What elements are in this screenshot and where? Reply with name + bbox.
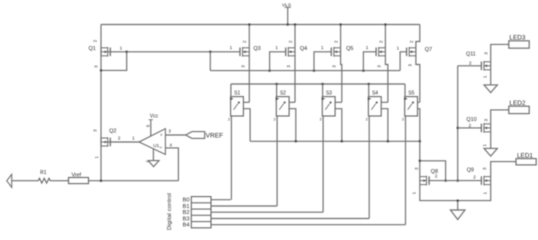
wire Q8 gate to Q9 gate xyxy=(428,180,481,182)
wire S5 output hook xyxy=(418,109,420,142)
wire gate under-rail R1 xyxy=(210,69,400,72)
wire S2 input riser xyxy=(276,84,278,97)
net tag LED2 xyxy=(505,100,530,113)
wire drain riser x=249.3 xyxy=(248,23,251,47)
wire R1 to Vref xyxy=(53,180,69,182)
ground (Q11) xyxy=(484,85,497,93)
svg-text:2: 2 xyxy=(274,118,276,122)
transistor Q2 xyxy=(92,129,121,159)
switch S2 xyxy=(274,90,289,121)
svg-text:Q2: Q2 xyxy=(109,129,116,135)
transistor Q3 xyxy=(230,40,261,68)
svg-text:2: 2 xyxy=(334,40,339,43)
transistor Q8 xyxy=(412,167,438,194)
svg-text:2: 2 xyxy=(228,118,230,122)
power flag VLS xyxy=(282,2,291,25)
label B3 xyxy=(183,217,190,223)
svg-text:S4: S4 xyxy=(372,90,378,96)
wire Q7 drain drop xyxy=(416,56,420,102)
wire S1 control drop xyxy=(230,116,232,200)
wire Q11 source xyxy=(490,70,492,85)
wire Q9 drain to LED1 xyxy=(491,162,512,177)
wire S4 upper pin xyxy=(381,101,388,103)
wire gate riser Q4 xyxy=(270,52,286,71)
wire gate riser Q5 xyxy=(314,52,331,71)
transistor Q11 xyxy=(466,51,491,78)
transistor Q10 xyxy=(466,117,490,147)
svg-text:S5: S5 xyxy=(408,90,414,96)
svg-text:5: 5 xyxy=(145,124,150,127)
ground (op-amp) xyxy=(148,161,159,167)
svg-text:2: 2 xyxy=(118,135,121,140)
svg-text:2: 2 xyxy=(366,118,368,122)
net tag VREF xyxy=(186,132,224,140)
wire Q10 drain to LED2 xyxy=(491,110,505,124)
wire S2 control drop xyxy=(276,116,278,206)
svg-text:+: + xyxy=(160,133,163,138)
op-amp output pin 3 to VREF xyxy=(165,129,185,135)
label B1 xyxy=(183,204,190,210)
svg-text:S3: S3 xyxy=(326,90,332,96)
wire S5 input riser xyxy=(404,84,406,97)
svg-text:B0: B0 xyxy=(183,198,190,204)
svg-text:1: 1 xyxy=(482,75,487,78)
svg-text:3: 3 xyxy=(407,63,412,66)
transistor Q6 xyxy=(366,40,386,68)
transistor Q5 xyxy=(321,40,354,68)
wire S4 output hook xyxy=(381,109,388,142)
wire S2 upper pin xyxy=(289,101,295,103)
svg-text:3: 3 xyxy=(286,65,291,68)
wire S3 upper pin xyxy=(335,101,342,103)
wire Q2 gate to op-amp xyxy=(108,141,139,143)
wire B2 control line xyxy=(211,211,323,213)
wire gate riser Q6 xyxy=(363,52,376,71)
svg-text:4: 4 xyxy=(169,143,172,148)
svg-text:2: 2 xyxy=(402,118,404,122)
wire drain drop x=249.3 xyxy=(248,56,250,102)
wire gate riser Q7 xyxy=(400,52,407,71)
ground (Q10) xyxy=(484,148,497,156)
svg-text:2: 2 xyxy=(288,40,293,43)
wire Q1 gate to rail xyxy=(108,51,127,53)
svg-text:B3: B3 xyxy=(183,217,190,223)
wire output rail xyxy=(250,140,421,143)
svg-text:1: 1 xyxy=(132,135,135,140)
svg-text:Q5: Q5 xyxy=(346,46,353,52)
svg-text:Q3: Q3 xyxy=(253,46,260,52)
wire drain riser x=385.4 xyxy=(384,23,387,47)
svg-text:VREF: VREF xyxy=(206,133,224,140)
svg-text:B1: B1 xyxy=(183,204,190,210)
label B4 xyxy=(183,223,190,229)
svg-text:B2: B2 xyxy=(183,210,190,216)
label B0 xyxy=(183,198,190,204)
wire S5 control drop xyxy=(405,116,407,225)
resistor R1 xyxy=(36,170,53,183)
op-amp U1 xyxy=(132,129,165,155)
wire B4 control line xyxy=(211,224,406,226)
svg-text:LED2: LED2 xyxy=(509,100,525,107)
svg-text:1: 1 xyxy=(412,191,417,194)
svg-text:LED1: LED1 xyxy=(517,152,533,159)
svg-text:3: 3 xyxy=(483,52,488,55)
wire S3 control drop xyxy=(322,116,324,212)
wire gate rail segment A xyxy=(127,51,240,54)
wire B1 control line xyxy=(211,205,277,207)
wire left vertical (rail to Q1,Q2,Vref node) xyxy=(100,25,102,181)
net tag LED1 xyxy=(512,152,536,165)
transistor Q4 xyxy=(275,40,307,68)
op-amp ground pin xyxy=(146,149,154,163)
wire ground stub xyxy=(456,199,459,210)
wire Q11 gate xyxy=(458,65,482,67)
svg-text:3: 3 xyxy=(168,129,171,134)
svg-text:1: 1 xyxy=(275,45,278,50)
component Vref xyxy=(69,173,89,184)
wire gate control vertical xyxy=(456,66,459,182)
wire drain drop x=385.4 xyxy=(385,56,388,102)
wire S1 input riser xyxy=(230,84,232,97)
svg-text:U1: U1 xyxy=(153,143,159,148)
svg-text:3: 3 xyxy=(93,65,98,68)
wire rail to Q8 drain xyxy=(419,141,421,176)
wire S1 output hook xyxy=(243,109,250,142)
wire port to R1 xyxy=(12,180,36,182)
svg-text:Vref: Vref xyxy=(71,173,81,179)
svg-text:1: 1 xyxy=(321,45,324,50)
svg-text:R1: R1 xyxy=(40,170,47,176)
svg-text:Q11: Q11 xyxy=(466,51,476,57)
ground (Q8 Q9 common) xyxy=(450,210,465,220)
wire drain drop x=295.0 xyxy=(294,56,296,102)
wire S5 upper pin xyxy=(418,101,420,103)
wire S2 output hook xyxy=(289,109,296,142)
switch S1 xyxy=(228,90,243,121)
svg-text:1: 1 xyxy=(397,45,400,50)
wire drain drop x=340.6 xyxy=(341,56,342,102)
wire top supply rail xyxy=(101,24,420,26)
wire S3 input riser xyxy=(322,84,324,97)
svg-text:2: 2 xyxy=(469,123,472,128)
svg-text:3: 3 xyxy=(240,65,245,68)
svg-text:1: 1 xyxy=(94,156,99,159)
svg-text:2: 2 xyxy=(473,174,476,179)
svg-text:1: 1 xyxy=(366,45,369,50)
op-amp U1 Vcc pin xyxy=(145,113,158,136)
wire switch-input rail xyxy=(231,83,405,86)
svg-text:3: 3 xyxy=(414,167,419,170)
svg-text:3: 3 xyxy=(332,65,337,68)
svg-text:1: 1 xyxy=(482,144,487,147)
svg-text:LED3: LED3 xyxy=(509,35,525,42)
wire Q9 source xyxy=(458,185,491,201)
svg-text:S1: S1 xyxy=(234,90,240,96)
wire Q1 drain tie (gate=drain) xyxy=(100,51,128,72)
wire S4 control drop xyxy=(368,116,370,219)
wire Q11 drain to LED3 xyxy=(491,44,505,61)
wire S1 upper pin xyxy=(243,101,249,103)
svg-text:3: 3 xyxy=(482,167,487,170)
svg-text:1: 1 xyxy=(482,191,487,194)
transistor Q1 xyxy=(89,39,123,68)
wire Vref node xyxy=(89,179,179,182)
wire Q10 source xyxy=(490,132,492,148)
svg-text:2: 2 xyxy=(378,40,383,43)
svg-text:Q4: Q4 xyxy=(300,46,307,52)
svg-text:S2: S2 xyxy=(280,90,286,96)
wire gate rail drop xyxy=(209,52,211,71)
wire B3 control line xyxy=(211,218,369,220)
input port arrow xyxy=(7,174,12,187)
wire feedback pin 4 xyxy=(165,143,178,181)
net tag LED3 xyxy=(505,35,530,49)
svg-text:Q9: Q9 xyxy=(467,168,474,174)
wire S3 output hook xyxy=(335,109,342,142)
svg-text:3: 3 xyxy=(377,65,382,68)
svg-text:Vcc: Vcc xyxy=(150,113,159,119)
wire drain riser x=340.6 xyxy=(339,23,342,47)
svg-text:3: 3 xyxy=(92,129,97,132)
wire Q7 drain riser xyxy=(416,25,420,48)
wire drain riser x=295.0 xyxy=(294,23,297,47)
wire S4 input riser xyxy=(368,84,370,97)
switch S3 xyxy=(320,90,335,121)
svg-text:3: 3 xyxy=(484,118,489,121)
svg-text:2: 2 xyxy=(469,61,472,66)
transistor Q7 xyxy=(397,40,432,66)
svg-text:Digital control: Digital control xyxy=(167,193,173,230)
connector block B0-B4 xyxy=(191,197,211,228)
svg-text:2: 2 xyxy=(409,40,414,43)
svg-text:1: 1 xyxy=(120,46,123,51)
transistor Q9 xyxy=(467,167,491,194)
wire Q8 diode tie xyxy=(419,160,447,182)
svg-text:1: 1 xyxy=(230,45,233,50)
wire Q8 source xyxy=(420,185,458,201)
label Digital control xyxy=(167,193,173,230)
svg-text:2: 2 xyxy=(242,40,247,43)
switch S5 xyxy=(402,90,417,121)
label B2 xyxy=(183,210,190,216)
svg-text:B4: B4 xyxy=(183,223,190,229)
wire Q10 gate xyxy=(458,127,482,129)
svg-text:2: 2 xyxy=(92,39,97,42)
svg-text:2: 2 xyxy=(320,118,322,122)
switch S4 xyxy=(366,90,381,121)
wire B0 control line xyxy=(211,199,231,201)
svg-text:Q7: Q7 xyxy=(425,47,432,53)
svg-text:Q1: Q1 xyxy=(89,46,96,52)
